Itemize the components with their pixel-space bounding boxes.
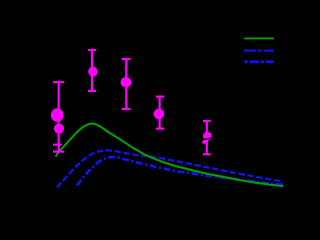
P1 top cap: [53, 81, 64, 83]
P3 top cap: [122, 58, 131, 60]
P4 top cap: [156, 95, 164, 97]
P5 bottom cap: [203, 153, 211, 155]
P3 bottom cap: [122, 108, 131, 110]
P5 top cap: [203, 120, 211, 122]
P1 middle cap: [53, 144, 62, 146]
P2 bottom cap: [88, 90, 96, 92]
legend green solid line: [244, 37, 273, 39]
P5 upper marker: [203, 132, 212, 141]
data point P5 error bar: [206, 121, 208, 154]
P2 marker: [88, 67, 97, 77]
P1 lower marker: [54, 124, 64, 134]
P4 marker: [154, 109, 165, 120]
P1 upper marker: [51, 108, 64, 122]
blue dashed model curve: [57, 150, 283, 187]
P4 bottom cap: [156, 128, 164, 130]
blue dash-dot model curve: [77, 157, 283, 186]
green model curve: [56, 124, 284, 187]
data point P1 error bar: [58, 82, 60, 151]
data point P2 error bar: [91, 50, 93, 91]
data point P4 error bar: [159, 97, 161, 129]
P2 top cap: [88, 49, 96, 51]
P5 marker gap: [201, 138, 213, 140]
data point P3 error bar: [125, 59, 127, 109]
P5 lower marker: [202, 139, 209, 145]
legend blue dashed line: [244, 49, 273, 51]
P1 bottom cap: [53, 151, 64, 153]
P3 marker: [121, 77, 132, 87]
legend blue dash-dot line: [244, 60, 273, 63]
